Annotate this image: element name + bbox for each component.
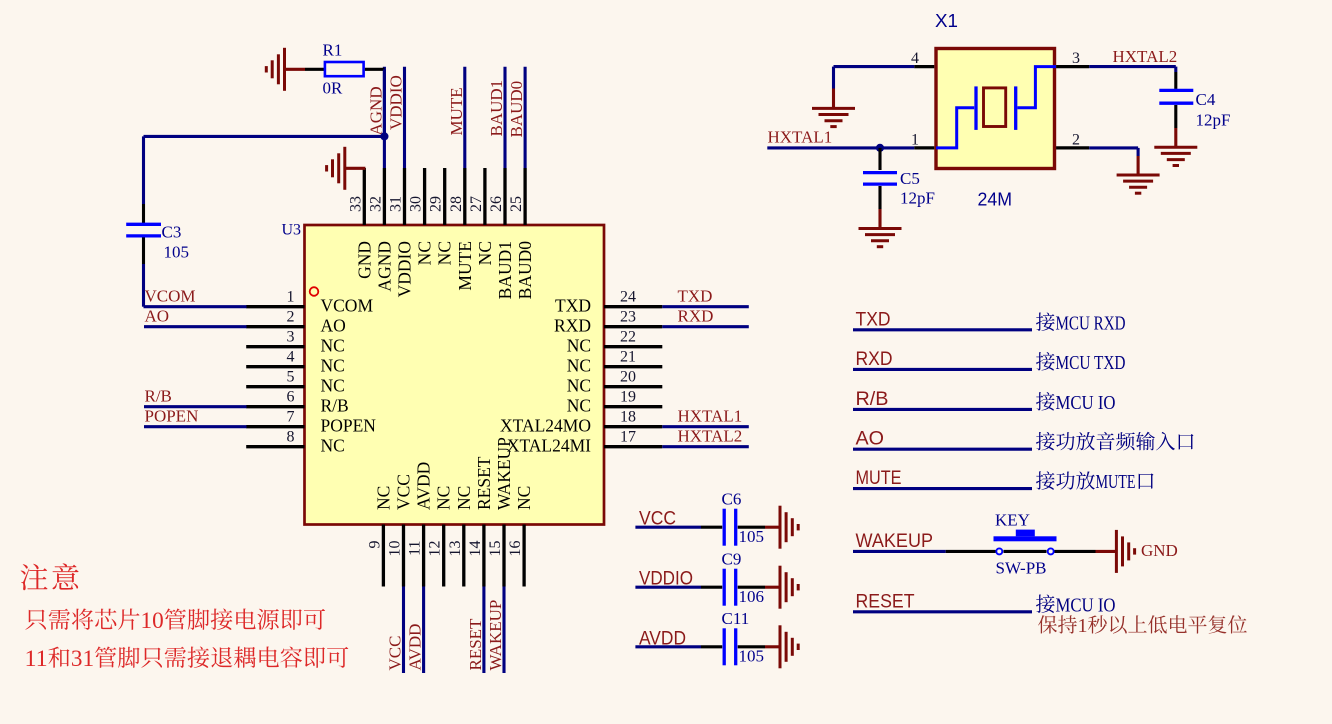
svg-text:1: 1: [287, 289, 295, 306]
svg-text:RESET: RESET: [466, 618, 485, 671]
svg-text:11: 11: [407, 541, 424, 556]
svg-text:10: 10: [387, 541, 404, 557]
svg-text:26: 26: [488, 196, 505, 212]
svg-text:MUTE: MUTE: [1096, 471, 1136, 493]
svg-text:NC: NC: [454, 486, 474, 510]
svg-text:MCU IO: MCU IO: [1056, 594, 1116, 616]
svg-text:R/B: R/B: [321, 396, 349, 416]
svg-text:GND: GND: [1141, 541, 1178, 560]
svg-text:WAKEUP: WAKEUP: [856, 530, 934, 552]
svg-text:14: 14: [467, 541, 484, 557]
svg-text:POPEN: POPEN: [145, 407, 199, 426]
svg-text:NC: NC: [567, 356, 591, 376]
svg-text:4: 4: [911, 50, 919, 67]
svg-text:BAUD0: BAUD0: [507, 81, 526, 138]
svg-text:2: 2: [287, 309, 295, 326]
svg-text:TXD: TXD: [678, 287, 713, 306]
svg-text:105: 105: [739, 527, 765, 546]
svg-text:4: 4: [287, 349, 295, 366]
svg-text:XTAL24MI: XTAL24MI: [507, 436, 591, 456]
svg-text:NC: NC: [321, 336, 345, 356]
svg-text:VCC: VCC: [386, 636, 405, 671]
svg-text:NC: NC: [321, 436, 345, 456]
svg-text:105: 105: [164, 243, 190, 262]
svg-text:24: 24: [620, 289, 636, 306]
svg-text:MUTE: MUTE: [856, 467, 902, 489]
svg-text:6: 6: [287, 389, 295, 406]
svg-text:1: 1: [911, 131, 919, 148]
svg-text:17: 17: [620, 429, 636, 446]
svg-text:20: 20: [620, 369, 636, 386]
svg-text:C4: C4: [1196, 90, 1216, 109]
svg-text:NC: NC: [415, 241, 435, 265]
svg-text:TXD: TXD: [555, 296, 591, 316]
svg-text:24M: 24M: [978, 189, 1013, 210]
svg-text:U3: U3: [282, 222, 302, 239]
svg-text:12pF: 12pF: [1196, 111, 1231, 130]
svg-text:10: 10: [141, 608, 164, 634]
svg-text:23: 23: [620, 309, 636, 326]
svg-text:X1: X1: [935, 10, 958, 31]
svg-text:C5: C5: [900, 169, 920, 188]
svg-text:NC: NC: [514, 486, 534, 510]
svg-text:BAUD1: BAUD1: [495, 241, 515, 299]
svg-text:C3: C3: [162, 223, 182, 242]
svg-text:AO: AO: [321, 316, 346, 336]
svg-text:RXD: RXD: [856, 348, 893, 370]
svg-text:105: 105: [739, 647, 765, 666]
svg-text:C6: C6: [722, 490, 742, 509]
svg-text:13: 13: [447, 541, 464, 557]
svg-text:21: 21: [620, 349, 636, 366]
svg-text:7: 7: [287, 409, 295, 426]
svg-text:32: 32: [367, 196, 384, 212]
svg-text:R1: R1: [323, 41, 343, 60]
svg-text:0R: 0R: [323, 79, 344, 98]
svg-text:33: 33: [347, 196, 364, 212]
svg-text:HXTAL1: HXTAL1: [678, 407, 743, 426]
svg-text:9: 9: [366, 541, 383, 549]
svg-text:BAUD1: BAUD1: [487, 80, 506, 137]
svg-text:NC: NC: [434, 486, 454, 510]
svg-text:12: 12: [427, 541, 444, 557]
svg-text:VDDIO: VDDIO: [387, 75, 406, 130]
svg-text:R/B: R/B: [856, 388, 889, 410]
svg-text:VDDIO: VDDIO: [395, 241, 415, 297]
svg-text:HXTAL2: HXTAL2: [1113, 47, 1178, 66]
svg-text:RESET: RESET: [474, 456, 494, 510]
svg-text:RESET: RESET: [856, 590, 915, 612]
svg-text:NC: NC: [567, 376, 591, 396]
svg-text:MUTE: MUTE: [447, 87, 466, 135]
svg-text:C11: C11: [722, 609, 750, 628]
svg-text:WAKEUP: WAKEUP: [486, 600, 505, 671]
svg-text:30: 30: [408, 196, 425, 212]
svg-text:19: 19: [620, 389, 636, 406]
svg-text:18: 18: [620, 409, 636, 426]
svg-text:VCOM: VCOM: [321, 296, 374, 316]
svg-text:1: 1: [1078, 615, 1088, 637]
svg-text:31: 31: [388, 196, 405, 212]
svg-text:MUTE: MUTE: [455, 241, 475, 291]
svg-text:WAKEUP: WAKEUP: [494, 437, 514, 510]
svg-text:RXD: RXD: [678, 307, 714, 326]
svg-text:MCU RXD: MCU RXD: [1056, 312, 1126, 334]
svg-text:HXTAL1: HXTAL1: [768, 128, 833, 147]
svg-text:29: 29: [428, 196, 445, 212]
svg-text:8: 8: [287, 429, 295, 446]
svg-text:VDDIO: VDDIO: [639, 568, 693, 590]
svg-text:AO: AO: [145, 307, 170, 326]
svg-text:POPEN: POPEN: [321, 416, 377, 436]
svg-text:11: 11: [25, 646, 48, 672]
svg-text:NC: NC: [567, 396, 591, 416]
svg-text:5: 5: [287, 369, 295, 386]
svg-text:AVDD: AVDD: [639, 627, 686, 649]
svg-text:GND: GND: [354, 241, 374, 279]
svg-text:VCC: VCC: [639, 508, 676, 530]
svg-text:25: 25: [508, 196, 525, 212]
svg-text:C9: C9: [722, 550, 742, 569]
svg-text:NC: NC: [475, 241, 495, 265]
svg-text:BAUD0: BAUD0: [515, 241, 535, 300]
svg-text:22: 22: [620, 329, 636, 346]
svg-text:NC: NC: [321, 376, 345, 396]
svg-text:TXD: TXD: [856, 308, 891, 330]
svg-text:3: 3: [1072, 50, 1080, 67]
svg-text:AGND: AGND: [374, 241, 394, 292]
svg-text:28: 28: [448, 196, 465, 212]
svg-text:RXD: RXD: [554, 316, 591, 336]
svg-text:AO: AO: [856, 428, 885, 450]
svg-text:12pF: 12pF: [900, 189, 935, 208]
svg-text:KEY: KEY: [995, 511, 1030, 530]
svg-text:106: 106: [739, 587, 765, 606]
svg-text:XTAL24MO: XTAL24MO: [500, 416, 591, 436]
svg-text:15: 15: [487, 541, 504, 557]
svg-text:3: 3: [287, 329, 295, 346]
svg-text:AVDD: AVDD: [406, 624, 425, 671]
svg-text:HXTAL2: HXTAL2: [678, 427, 743, 446]
svg-text:MCU TXD: MCU TXD: [1056, 352, 1126, 374]
svg-text:NC: NC: [373, 486, 393, 510]
svg-text:31: 31: [71, 646, 94, 672]
svg-text:27: 27: [468, 196, 485, 212]
svg-text:R/B: R/B: [145, 387, 172, 406]
svg-text:AGND: AGND: [366, 86, 385, 135]
svg-text:AVDD: AVDD: [414, 462, 434, 510]
svg-text:2: 2: [1072, 131, 1080, 148]
svg-text:NC: NC: [321, 356, 345, 376]
svg-text:NC: NC: [435, 241, 455, 265]
svg-text:VCC: VCC: [394, 474, 414, 510]
svg-text:MCU IO: MCU IO: [1056, 392, 1116, 414]
svg-text:16: 16: [507, 541, 524, 557]
svg-text:SW-PB: SW-PB: [996, 558, 1047, 577]
svg-text:NC: NC: [567, 336, 591, 356]
svg-text:VCOM: VCOM: [145, 287, 196, 306]
